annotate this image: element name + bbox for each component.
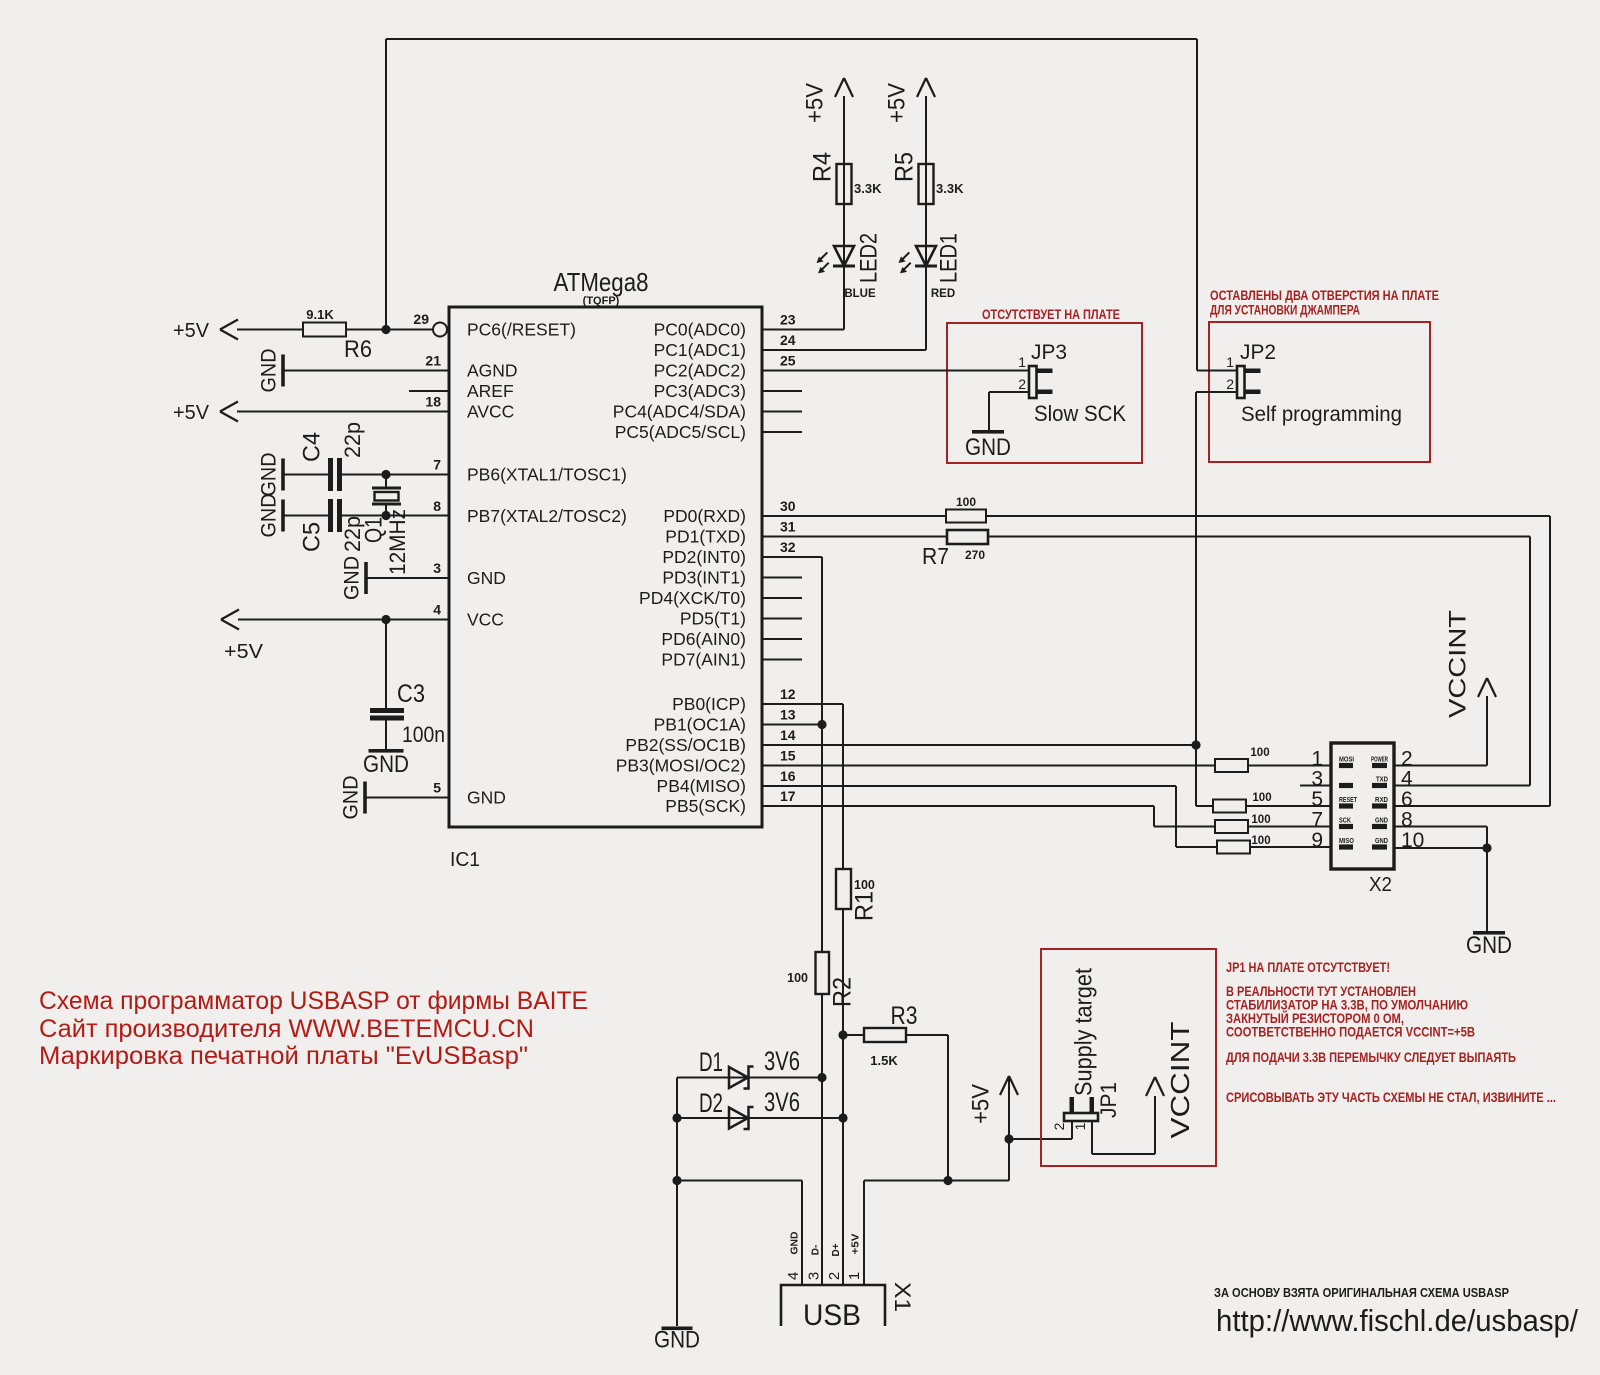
svg-text:+5V: +5V (801, 83, 828, 123)
ground (IC pin 3) (341, 556, 368, 600)
junction (672, 1176, 681, 1185)
svg-text:GND: GND (258, 349, 281, 393)
annotation (red) JP1 note1 (1226, 960, 1390, 975)
svg-text:POWER: POWER (1371, 755, 1388, 764)
junction (381, 325, 390, 334)
wire (1246, 805, 1331, 807)
svg-text:8: 8 (433, 498, 441, 514)
annotation (red) JP1 note2 (1226, 984, 1416, 999)
resistor 100 (SCK line) (1215, 814, 1271, 833)
svg-text:PD0(RXD): PD0(RXD) (663, 506, 746, 526)
node +5V (reset pullup rail) (173, 320, 238, 343)
wire (677, 1077, 822, 1079)
svg-text:PC0(ADC0): PC0(ADC0) (654, 320, 746, 340)
svg-text:GND: GND (1466, 932, 1512, 959)
svg-text:(TQFP): (TQFP) (583, 295, 620, 307)
svg-text:PD2(INT0): PD2(INT0) (662, 547, 746, 567)
LED LED2 (BLUE) (817, 233, 883, 300)
svg-text:ATMega8: ATMega8 (554, 267, 649, 297)
svg-text:GND: GND (1375, 816, 1388, 825)
jumper JP2 (1226, 341, 1276, 398)
svg-text:PB6(XTAL1/TOSC1): PB6(XTAL1/TOSC1) (467, 465, 627, 485)
resistor 100 (MISO line) (1217, 835, 1271, 854)
svg-text:Сайт производителя WWW.BETEM: Сайт производителя WWW.BETEMCU.CN (39, 1015, 534, 1043)
svg-text:PC4(ADC4/SDA): PC4(ADC4/SDA) (613, 402, 746, 422)
svg-text:PC2(ADC2): PC2(ADC2) (654, 361, 746, 381)
svg-text:9.1K: 9.1K (306, 307, 334, 322)
svg-text:ОТСУТСТВУЕТ НА ПЛАТЕ: ОТСУТСТВУЕТ НА ПЛАТЕ (982, 307, 1120, 322)
capacitor C3 (370, 680, 445, 747)
annotation (red) title line2 (39, 1015, 534, 1043)
annotation (red) JP1 note3 (1226, 998, 1468, 1013)
wire (PD2 pin32) (762, 556, 822, 558)
wire (843, 164, 845, 330)
svg-text:GND: GND (363, 751, 409, 778)
ground (JP3) (965, 430, 1011, 461)
wire (762, 515, 946, 517)
node +5V (AVCC) (173, 402, 238, 425)
diode D2 3V6 zener (699, 1087, 800, 1129)
X2 pad name labels (1339, 755, 1388, 846)
annotation (red) title line1 (39, 987, 588, 1015)
wire (D+ vertical) (842, 909, 844, 1285)
wire (237, 329, 303, 331)
svg-text:100: 100 (956, 495, 976, 509)
svg-text:PC6(/RESET): PC6(/RESET) (467, 320, 576, 340)
svg-text:PD4(XCK/T0): PD4(XCK/T0) (639, 588, 746, 608)
wire (367, 577, 449, 579)
svg-text:1: 1 (1018, 354, 1026, 370)
wire (346, 329, 433, 331)
svg-text:JP1: JP1 (1096, 1082, 1121, 1118)
wire (1092, 1153, 1155, 1155)
wire (1250, 846, 1331, 848)
wire (1529, 537, 1531, 786)
svg-text:+5V: +5V (173, 402, 210, 424)
IC1 unconnected pin stubs (PC3-PC5, PD3-PD7, AREF) (409, 391, 802, 660)
ground (C4) (258, 453, 285, 497)
junction (817, 1073, 826, 1082)
svg-text:4: 4 (785, 1272, 802, 1280)
svg-text:VCCINT: VCCINT (1444, 610, 1471, 718)
wire (925, 164, 927, 350)
wire (801, 1181, 803, 1286)
junction (1191, 740, 1200, 749)
label Slow SCK (1034, 401, 1126, 426)
pin 29 inverting circle (433, 323, 447, 337)
resistor R6 (303, 307, 372, 363)
svg-text:270: 270 (965, 548, 985, 562)
svg-text:PC3(ADC3): PC3(ADC3) (654, 381, 746, 401)
svg-text:PB5(SCK): PB5(SCK) (665, 796, 746, 816)
wire (762, 370, 1029, 372)
svg-text:17: 17 (780, 788, 796, 804)
svg-text:GND: GND (340, 776, 363, 820)
svg-text:PD3(INT1): PD3(INT1) (662, 568, 746, 588)
junction (381, 511, 390, 520)
wire (677, 1117, 843, 1119)
svg-text:21: 21 (425, 353, 441, 369)
junction (1482, 843, 1491, 852)
wire (1248, 826, 1331, 828)
svg-text:2: 2 (826, 1272, 843, 1280)
node +5V (VCC) (221, 610, 264, 664)
svg-text:+5V: +5V (173, 320, 210, 342)
wire (1154, 1096, 1156, 1154)
svg-text:+5V: +5V (224, 641, 264, 663)
svg-text:15: 15 (780, 748, 796, 764)
resistor 100 (RESET line) (1213, 792, 1272, 813)
svg-text:100: 100 (1251, 814, 1270, 826)
svg-text:12: 12 (780, 686, 796, 702)
annotation (red) JP1 note6 (1226, 1050, 1516, 1065)
junction (381, 470, 390, 479)
wire (366, 797, 449, 799)
annotation (red) title line3 (39, 1042, 528, 1070)
svg-text:14: 14 (780, 727, 796, 743)
svg-text:BLUE: BLUE (844, 288, 876, 300)
svg-text:3V6: 3V6 (764, 1087, 800, 1117)
wire (863, 1181, 865, 1286)
svg-text:24: 24 (780, 332, 796, 348)
svg-text:100: 100 (1250, 747, 1269, 759)
svg-text:SCK: SCK (1339, 816, 1351, 825)
resistor R5 (891, 152, 964, 204)
wire (X2 pin2 POWER) (1394, 765, 1487, 767)
svg-text:29: 29 (413, 311, 429, 327)
ground (C3) (363, 749, 409, 778)
capacitor C4 (298, 422, 364, 491)
svg-text:PB0(ICP): PB0(ICP) (672, 694, 746, 714)
junction (943, 1176, 952, 1185)
svg-text:100: 100 (1252, 792, 1271, 804)
svg-text:1.5K: 1.5K (870, 1053, 898, 1068)
svg-text:ЗА ОСНОВУ ВЗЯТА ОРИГИНАЛЬНАЯ С: ЗА ОСНОВУ ВЗЯТА ОРИГИНАЛЬНАЯ СХЕМА USBAS… (1214, 1285, 1509, 1300)
svg-text:USB: USB (803, 1299, 861, 1332)
ground (USB) (654, 1327, 700, 1354)
svg-text:RED: RED (931, 288, 955, 300)
ground (IC pin 5) (340, 776, 367, 820)
svg-text:TXD: TXD (1376, 775, 1388, 784)
connector X2 body (1331, 743, 1394, 896)
svg-text:RXD: RXD (1375, 795, 1388, 804)
svg-text:ДЛЯ ПОДАЧИ 3.3В ПЕРЕМЫЧКУ СЛЕД: ДЛЯ ПОДАЧИ 3.3В ПЕРЕМЫЧКУ СЛЕДУЕТ ВЫПАЯТ… (1226, 1050, 1516, 1065)
wire (237, 411, 449, 413)
label Supply target (1070, 968, 1097, 1096)
wire (342, 515, 449, 517)
svg-text:18: 18 (425, 394, 441, 410)
wire (988, 392, 990, 430)
svg-text:D1: D1 (699, 1047, 723, 1077)
wire (1154, 826, 1215, 828)
svg-text:MISO: MISO (1339, 836, 1354, 845)
wire (1549, 516, 1551, 806)
svg-text:ОСТАВЛЕНЫ ДВА ОТВЕРСТИЯ НА ПЛА: ОСТАВЛЕНЫ ДВА ОТВЕРСТИЯ НА ПЛАТЕ (1210, 288, 1439, 303)
svg-text:JP1 НА ПЛАТЕ ОТСУТСТВУЕТ!: JP1 НА ПЛАТЕ ОТСУТСТВУЕТ! (1226, 960, 1390, 975)
svg-text:PD5(T1): PD5(T1) (680, 609, 746, 629)
wire (925, 96, 927, 164)
svg-text:100: 100 (787, 971, 808, 985)
svg-text:R3: R3 (891, 1002, 918, 1030)
wire (1176, 846, 1217, 848)
wire (PB5 pin17 SCK) (762, 805, 1154, 807)
wire (342, 474, 449, 476)
svg-text:Q1: Q1 (360, 517, 387, 543)
node +5V (USB rail) (967, 1076, 1018, 1124)
wire (284, 370, 449, 372)
svg-text:PC5(ADC5/SCL): PC5(ADC5/SCL) (615, 422, 746, 442)
svg-text:RESET: RESET (1339, 795, 1357, 804)
wire (238, 619, 449, 621)
svg-text:25: 25 (780, 353, 796, 369)
wire (1196, 391, 1237, 393)
annotation (red) JP1 note4 (1226, 1011, 1404, 1026)
resistor R1 (836, 869, 879, 921)
wire (1175, 786, 1177, 847)
annotation url (1216, 1303, 1578, 1338)
svg-text:2: 2 (1051, 1122, 1067, 1130)
svg-text:IC1: IC1 (450, 849, 480, 871)
resistor R3 (864, 1002, 918, 1068)
wire (1009, 1138, 1072, 1140)
svg-text:3.3K: 3.3K (936, 181, 964, 196)
svg-text:R6: R6 (344, 336, 372, 363)
wire (284, 474, 328, 476)
node +5V (LED1) (883, 78, 935, 123)
wire (1486, 827, 1488, 849)
wire (JP2 pin2 down to PB2 net) (1195, 392, 1197, 745)
svg-text:VCC: VCC (467, 610, 504, 630)
wire (1486, 848, 1488, 931)
wire (D- vertical upper) (821, 557, 823, 952)
svg-text:D2: D2 (699, 1088, 723, 1118)
junction (1004, 1134, 1013, 1143)
IC1 right pin name labels (613, 320, 746, 817)
IC1 pin number labels (413, 311, 795, 804)
svg-text:+5V: +5V (883, 83, 910, 123)
svg-text:R4: R4 (809, 152, 837, 182)
ground (AGND) (258, 349, 285, 393)
svg-text:100: 100 (854, 878, 875, 892)
svg-text:16: 16 (780, 768, 796, 784)
wire (385, 721, 387, 750)
svg-text:22p: 22p (340, 422, 365, 458)
svg-text:D-: D- (811, 1245, 822, 1256)
svg-text:9: 9 (1311, 829, 1323, 852)
IC1 left pin name labels (467, 320, 627, 808)
wire (X2 pin8 GND) (1394, 826, 1487, 828)
svg-text:13: 13 (780, 707, 796, 723)
wire (843, 1034, 864, 1036)
wire (906, 1034, 948, 1036)
svg-text:PC1(ADC1): PC1(ADC1) (654, 340, 746, 360)
resistor 100 (MOSI line) (1215, 747, 1270, 772)
svg-text:GND: GND (467, 788, 506, 808)
X2 pin pads (1339, 763, 1387, 850)
junction (838, 1113, 847, 1122)
svg-text:32: 32 (780, 539, 796, 555)
svg-text:Схема программатор USBASP от ф: Схема программатор USBASP от фирмы BAITE (39, 987, 588, 1015)
wire (D- vertical) (821, 994, 823, 1285)
annotation (red) JP3 absent (982, 307, 1120, 322)
svg-text:23: 23 (780, 312, 796, 328)
annotation (red) JP1 note7 (1226, 1090, 1556, 1105)
svg-text:СООТВЕТСТВЕННО ПОДАЕТСЯ VCCINT: СООТВЕТСТВЕННО ПОДАЕТСЯ VCCINT=+5В (1226, 1025, 1475, 1040)
svg-text:7: 7 (433, 457, 441, 473)
label Self programming (1241, 403, 1402, 426)
ground (X2) (1466, 931, 1512, 959)
svg-text:GND: GND (1375, 836, 1388, 845)
svg-text:R7: R7 (922, 543, 949, 569)
capacitor C5 (298, 499, 364, 552)
wire (D1-D2 left link) (676, 1078, 678, 1181)
resistor R2 (787, 952, 856, 1007)
svg-text:12MHz: 12MHz (385, 509, 410, 575)
svg-text:+5V: +5V (851, 1233, 862, 1254)
annotation (red) JP2 holes line2 (1210, 303, 1360, 318)
wire (1248, 765, 1331, 767)
wire (284, 515, 328, 517)
svg-text:X2: X2 (1369, 874, 1392, 896)
svg-text:R5: R5 (891, 152, 919, 182)
svg-text:AVCC: AVCC (467, 402, 514, 422)
svg-text:Self programming: Self programming (1241, 403, 1402, 426)
svg-text:GND: GND (341, 556, 364, 600)
svg-text:D+: D+ (831, 1243, 842, 1256)
svg-text:1: 1 (1226, 354, 1234, 370)
svg-text:ДЛЯ УСТАНОВКИ ДЖАМПЕРА: ДЛЯ УСТАНОВКИ ДЖАМПЕРА (1210, 303, 1360, 318)
X1 pin labels (785, 1232, 863, 1281)
node VCCINT (JP1) (1146, 1021, 1195, 1138)
wire (1196, 39, 1198, 371)
diode D1 3V6 zener (699, 1046, 800, 1089)
wire (762, 536, 947, 538)
svg-text:GND: GND (790, 1232, 801, 1255)
svg-text:C4: C4 (298, 432, 325, 462)
wire (PB3 pin15 MOSI) (762, 765, 1215, 767)
resistor R7B 270 (922, 530, 988, 569)
wire (PB2 pin14 to JP2/X2 reset) (762, 744, 1196, 746)
wire (762, 349, 926, 351)
junction (817, 720, 826, 729)
svg-text:MOSI: MOSI (1339, 755, 1354, 764)
wire (1071, 1121, 1073, 1139)
wire (vertical from top rail to R6 node) (385, 39, 387, 330)
svg-text:AREF: AREF (467, 381, 514, 401)
wire (1197, 370, 1237, 372)
svg-text:GND: GND (654, 1327, 700, 1354)
svg-text:2: 2 (1018, 376, 1026, 392)
svg-text:3: 3 (433, 560, 441, 576)
svg-text:JP3: JP3 (1031, 341, 1067, 364)
svg-text:Slow SCK: Slow SCK (1034, 401, 1126, 426)
wire (GND to USB pin4) (677, 1180, 802, 1182)
wire (1196, 805, 1213, 807)
svg-text:GND: GND (258, 494, 281, 538)
node +5V (LED2) (801, 78, 853, 123)
annotation (red) JP1 note5 (1226, 1025, 1475, 1040)
wire (1394, 785, 1530, 787)
annotation red box (JP1) (1041, 949, 1216, 1166)
junction (672, 1113, 681, 1122)
svg-text:X1: X1 (890, 1282, 915, 1312)
svg-text:GND: GND (258, 453, 281, 497)
wire (1195, 745, 1197, 806)
jumper JP1 (1051, 1082, 1121, 1130)
annotation red box (JP3) (947, 323, 1142, 463)
svg-text:PB1(OC1A): PB1(OC1A) (654, 715, 746, 735)
wire (D+ vertical upper) (842, 704, 844, 869)
wire (PB0 pin12) (762, 703, 843, 705)
svg-text:PD7(AIN1): PD7(AIN1) (661, 650, 746, 670)
wire (1091, 1121, 1093, 1154)
svg-text:LED1: LED1 (935, 233, 962, 283)
svg-text:СРИСОВЫВАТЬ ЭТУ ЧАСТЬ СХЕМЫ НЕ: СРИСОВЫВАТЬ ЭТУ ЧАСТЬ СХЕМЫ НЕ СТАЛ, ИЗВ… (1226, 1090, 1556, 1105)
junction (838, 1030, 847, 1039)
svg-text:100: 100 (1251, 835, 1270, 847)
wire (X2 pin10 GND) (1394, 847, 1487, 849)
svg-text:C5: C5 (298, 522, 325, 552)
wire (+5V rail from USB pin1) (864, 1180, 1009, 1182)
svg-text:http://www.fischl.de/usbasp/: http://www.fischl.de/usbasp/ (1216, 1303, 1578, 1338)
node VCCINT (X2 POWER) (1444, 610, 1496, 718)
wire (USB GND drop) (676, 1181, 678, 1327)
svg-text:VCCINT: VCCINT (1165, 1021, 1195, 1138)
jumper JP3 (1018, 341, 1067, 398)
wire (843, 96, 845, 164)
wire (988, 536, 1530, 538)
svg-text:AGND: AGND (467, 361, 518, 381)
svg-text:100n: 100n (402, 722, 445, 747)
X2 pin numbers (1311, 748, 1424, 853)
svg-text:Маркировка печатной платы "EvU: Маркировка печатной платы "EvUSBasp" (39, 1042, 528, 1070)
wire (top horizontal rail to JP2) (386, 38, 1197, 40)
svg-text:3V6: 3V6 (764, 1046, 800, 1076)
svg-text:2: 2 (1226, 376, 1234, 392)
annotation origin note (1214, 1285, 1509, 1300)
svg-text:3.3K: 3.3K (854, 181, 882, 196)
wire (1486, 696, 1488, 766)
svg-text:30: 30 (780, 498, 796, 514)
resistor R4 (809, 152, 882, 204)
svg-text:PD6(AIN0): PD6(AIN0) (661, 629, 746, 649)
svg-text:1: 1 (1072, 1122, 1088, 1130)
svg-text:GND: GND (965, 434, 1011, 461)
wire (947, 1035, 949, 1181)
resistor R7A 100 (946, 495, 986, 523)
svg-text:4: 4 (433, 602, 441, 618)
svg-text:LED2: LED2 (855, 233, 882, 283)
svg-text:JP2: JP2 (1240, 341, 1276, 364)
svg-text:Supply target: Supply target (1070, 968, 1097, 1096)
connector X1 USB (781, 1282, 915, 1332)
svg-text:PB4(MISO): PB4(MISO) (657, 776, 746, 796)
annotation red box (JP2) (1209, 322, 1430, 462)
ground (C5) (258, 494, 285, 538)
svg-text:GND: GND (467, 568, 506, 588)
annotation (red) JP2 holes line1 (1210, 288, 1439, 303)
wire (762, 329, 844, 331)
wire (1008, 1076, 1010, 1181)
svg-text:R1: R1 (851, 891, 879, 921)
svg-text:+5V: +5V (967, 1084, 994, 1124)
wire (PB4 pin16 MISO) (762, 785, 1176, 787)
wire (989, 391, 1029, 393)
wire (X2 pin3 stub) (1300, 785, 1331, 787)
junction (381, 615, 390, 624)
LED LED1 (RED) (899, 233, 963, 300)
svg-text:C3: C3 (397, 680, 425, 708)
